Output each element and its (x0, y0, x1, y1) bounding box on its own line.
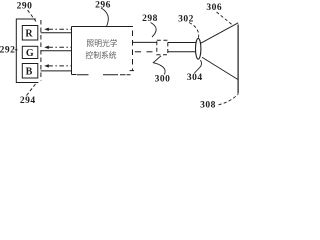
arrow into G row (44, 46, 72, 49)
svg-text:308: 308 (200, 101, 216, 111)
ray lower to screen (202, 57, 238, 80)
dashed plane line in front of panels (40, 20, 42, 81)
svg-text:296: 296 (95, 0, 111, 10)
arrow into R row (44, 28, 72, 31)
beam lower dash 2 (147, 51, 153, 53)
svg-text:照明光学: 照明光学 (86, 38, 117, 48)
svg-text:B: B (26, 66, 33, 77)
leader 302 dashed (189, 23, 199, 39)
leader 292 (15, 49, 18, 51)
svg-text:G: G (26, 48, 34, 59)
dashed box element 298 (light valve) (157, 40, 168, 55)
wire lower line row R (41, 32, 72, 34)
svg-text:298: 298 (142, 14, 158, 24)
arrow into B row (44, 64, 72, 67)
leader 306 dashed (217, 12, 234, 26)
wire lower line row B (41, 70, 72, 72)
lens 302 (196, 38, 201, 59)
wire lower line row G (41, 50, 72, 52)
leader 300 (153, 56, 165, 75)
outer back panel around RGB boxes (16, 19, 38, 83)
svg-text:290: 290 (17, 1, 33, 11)
beam lower dashed segment (135, 51, 141, 53)
svg-text:292: 292 (0, 45, 15, 55)
leader 296 (101, 8, 108, 27)
beam upper segment box to element 298 (133, 41, 157, 43)
box G panel (22, 46, 38, 58)
leader 298 (151, 23, 157, 38)
main box 296 (illumination unit) (72, 27, 135, 75)
svg-text:R: R (25, 28, 33, 39)
svg-text:304: 304 (187, 73, 203, 83)
leader 304 (195, 60, 202, 73)
beam lower segment 298 to lens (168, 51, 196, 53)
svg-text:306: 306 (206, 3, 222, 13)
svg-text:控制系统: 控制系统 (85, 50, 116, 60)
ray upper to screen (201, 23, 239, 44)
svg-text:300: 300 (155, 75, 171, 85)
leader 308 dashed (219, 94, 239, 105)
box R panel (22, 26, 38, 41)
leader 290 dashed (28, 10, 37, 22)
beam upper segment 298 to lens (168, 42, 196, 44)
box B panel (22, 64, 38, 79)
svg-text:302: 302 (178, 14, 194, 24)
svg-text:294: 294 (20, 96, 36, 106)
leader 294 dashed (27, 84, 36, 96)
screen 308 (237, 25, 239, 94)
